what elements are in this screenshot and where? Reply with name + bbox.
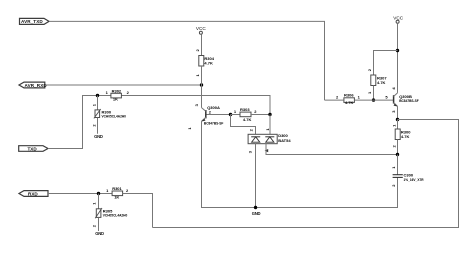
svg-text:1K: 1K: [114, 195, 119, 200]
power VCC (left): [196, 26, 207, 34]
svg-text:4.7K: 4.7K: [401, 134, 410, 139]
svg-text:GND: GND: [95, 231, 104, 236]
wire node to D300 pin1: [269, 115, 271, 135]
wire AVR_TXD net: [49, 21, 325, 100]
wire Q300A emitter to ground rail: [202, 121, 398, 207]
node TXD/R302 junction: [96, 94, 99, 97]
svg-text:4.7K: 4.7K: [243, 117, 252, 122]
transistor Q300B: [385, 87, 418, 113]
svg-text:AVR_TXD: AVR_TXD: [21, 19, 43, 24]
node Q300B base junction: [372, 98, 375, 101]
svg-text:R306: R306: [344, 92, 354, 97]
node ground rail junction: [254, 206, 257, 209]
wire D300 pin4 to R300/C300 node: [266, 144, 398, 155]
wire Q300A base to node: [207, 114, 231, 116]
node VCC branch junction: [396, 49, 399, 52]
svg-text:GND: GND: [252, 211, 261, 216]
wire R304 to AVR_RXD node: [201, 66, 203, 85]
wire VCC node to R307: [374, 51, 398, 76]
wire R301 to bottom rail: [123, 194, 153, 228]
resistor R307: [367, 68, 387, 94]
svg-text:1%_16V_X7R: 1%_16V_X7R: [404, 178, 425, 182]
svg-text:4.7K: 4.7K: [204, 61, 213, 66]
wire VCC down: [397, 23, 399, 93]
resistor R304: [195, 49, 215, 77]
port RXD: [19, 191, 48, 197]
svg-text:BAT54: BAT54: [278, 138, 291, 143]
wire R307 to base node: [373, 86, 375, 101]
wire base node to D300 pin2: [231, 115, 256, 135]
wire Q300B emitter down: [397, 106, 399, 119]
resistor R302: [106, 89, 130, 102]
capacitor C300: [391, 155, 424, 187]
svg-text:VCH05CL4A2H0: VCH05CL4A2H0: [102, 115, 127, 119]
wire AVR_RXD node to Q300A collector: [201, 85, 203, 108]
wire AVR_TXD to R306: [325, 99, 344, 101]
wire VCC to R304: [201, 34, 203, 55]
svg-text:GND: GND: [94, 134, 103, 139]
diode D300 (dual, BAT54): [247, 128, 291, 154]
svg-text:R302: R302: [112, 89, 122, 94]
svg-text:4.7K: 4.7K: [377, 80, 386, 85]
varistor R305 (CR301): [91, 194, 127, 232]
wire D300 pin3 to ground rail: [255, 144, 257, 208]
node Q300A base junction: [229, 113, 232, 116]
port AVR_RXD: [19, 82, 47, 88]
port TXD: [19, 146, 48, 152]
wire emitter node to right rail: [153, 120, 459, 228]
svg-text:VCC: VCC: [196, 26, 207, 31]
svg-text:RXD: RXD: [28, 191, 38, 196]
svg-text:4.7K: 4.7K: [345, 100, 354, 105]
wire AVR_RXD net: [45, 84, 202, 86]
wire TXD net: [48, 96, 270, 149]
svg-text:VCH05CL4A2H0: VCH05CL4A2H0: [103, 214, 128, 218]
svg-text:AVR_RXD: AVR_RXD: [25, 83, 48, 88]
svg-text:R301: R301: [112, 186, 122, 191]
node emitter junction: [396, 118, 399, 121]
resistor R301: [106, 186, 129, 199]
port AVR_TXD: [20, 18, 50, 24]
svg-text:1K: 1K: [113, 97, 118, 102]
svg-text:R303: R303: [240, 107, 250, 112]
node AVR_RXD junction: [200, 83, 203, 86]
svg-text:VCC: VCC: [393, 16, 404, 21]
transistor Q300A: [187, 103, 224, 129]
resistor R303: [231, 107, 271, 122]
resistor R306: [336, 92, 361, 105]
node R303 right junction: [268, 113, 271, 116]
svg-text:TXD: TXD: [28, 146, 38, 151]
resistor R300: [391, 120, 411, 155]
wire R306 to Q300B base: [354, 99, 393, 101]
svg-text:BC847BS-SF: BC847BS-SF: [204, 121, 224, 125]
varistor R300 (CR300): [92, 96, 127, 134]
node RXD junction: [97, 192, 100, 195]
power VCC (right): [393, 16, 404, 24]
wire RXD net: [48, 193, 112, 195]
node R300/C300 junction: [396, 153, 399, 156]
svg-text:C300: C300: [404, 173, 414, 178]
svg-text:BC847BS-SF: BC847BS-SF: [399, 99, 419, 103]
